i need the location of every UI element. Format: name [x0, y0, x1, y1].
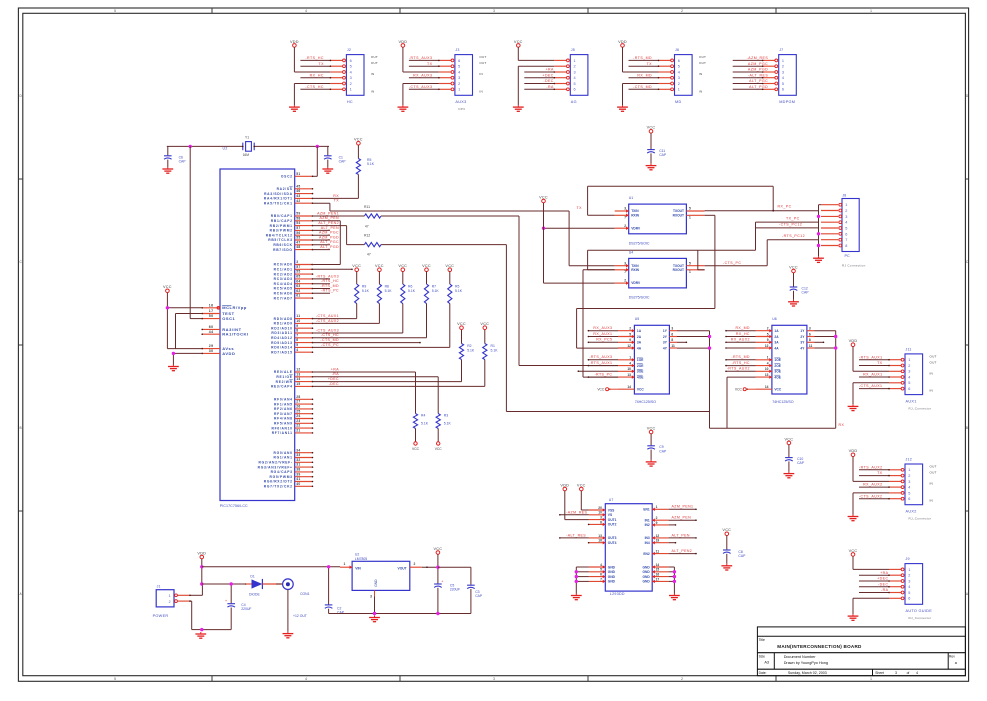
- svg-text:5: 5: [629, 332, 631, 336]
- svg-text:OUT: OUT: [371, 55, 378, 59]
- svg-text:50: 50: [209, 314, 214, 318]
- pin 8 OUT2: [589, 520, 605, 526]
- net label -RTS_PC12: [782, 234, 805, 238]
- svg-text:VCC: VCC: [637, 388, 645, 392]
- svg-text:RXOUT: RXOUT: [673, 213, 684, 217]
- wire -RA: [313, 377, 439, 414]
- svg-text:OUT: OUT: [479, 61, 486, 65]
- crystal Y1: [242, 136, 255, 157]
- ground: [784, 472, 795, 478]
- wire: [313, 318, 333, 320]
- svg-text:RE1/OE: RE1/OE: [276, 375, 292, 379]
- svg-text:RA5/TX1/CK1: RA5/TX1/CK1: [264, 201, 293, 205]
- svg-text:4: 4: [908, 585, 910, 589]
- power symbol VCC: [789, 265, 798, 272]
- svg-text:1: 1: [629, 356, 631, 360]
- svg-text:6: 6: [908, 497, 910, 501]
- pin 63 RC5/AD5: [274, 284, 314, 291]
- pin 10 RD1/AD9: [274, 319, 314, 326]
- svg-text:3OE: 3OE: [774, 370, 781, 374]
- net label +RA: [545, 68, 554, 72]
- pin 30 AVDD: [201, 349, 235, 356]
- wire bottom-left rail: [202, 629, 231, 631]
- svg-text:1: 1: [908, 468, 910, 472]
- wire: [294, 47, 330, 72]
- svg-text:4OE: 4OE: [774, 375, 781, 379]
- svg-text:RJ_Connector: RJ_Connector: [909, 406, 932, 410]
- net label RX_AUX3: [593, 326, 612, 330]
- svg-text:5: 5: [678, 65, 680, 69]
- svg-text:12: 12: [656, 534, 660, 538]
- svg-text:4: 4: [908, 486, 910, 490]
- wire: [403, 84, 439, 106]
- svg-text:MD: MD: [675, 100, 682, 104]
- svg-text:-RTS_MD: -RTS_MD: [321, 284, 340, 288]
- wire: [725, 330, 755, 332]
- pin 6: [889, 387, 904, 390]
- svg-text:2A: 2A: [774, 335, 779, 339]
- svg-text:17: 17: [209, 309, 214, 313]
- net label RX_PC5: [596, 338, 612, 342]
- svg-text:60: 60: [209, 325, 214, 329]
- pin 3: [554, 71, 569, 74]
- pin 1 1OE: [618, 356, 634, 362]
- svg-text:4: 4: [600, 563, 602, 567]
- IC U5 74HC125: [634, 317, 669, 404]
- IC U2 PIC17C756/LCC: [220, 147, 295, 508]
- svg-text:3A: 3A: [774, 341, 779, 345]
- ground: [646, 460, 657, 466]
- svg-text:5.1K: 5.1K: [421, 421, 429, 425]
- svg-text:6: 6: [845, 232, 847, 236]
- pin 5 2A: [618, 332, 634, 338]
- svg-text:4: 4: [767, 361, 769, 365]
- wire: [859, 475, 890, 477]
- svg-text:RX_AUX1: RX_AUX1: [593, 332, 612, 336]
- svg-text:1: 1: [458, 88, 460, 92]
- net label -ALT_RES: [566, 534, 586, 538]
- pin 1: [330, 88, 345, 91]
- pin 4: [889, 486, 904, 489]
- pin 4 2OE: [618, 361, 634, 367]
- node 4Y junction: [708, 346, 711, 349]
- wire: [313, 332, 333, 334]
- svg-text:1: 1: [908, 568, 910, 572]
- svg-text:RA1/TOCKI: RA1/TOCKI: [222, 332, 248, 337]
- node Y1-left junction: [189, 145, 192, 148]
- net label -CTS_AUX1: [859, 384, 883, 388]
- svg-text:IN: IN: [699, 89, 703, 93]
- svg-text:RA3/SDI/SDA: RA3/SDI/SDA: [264, 192, 293, 196]
- ground: [283, 632, 294, 638]
- pin 6 2Y: [669, 332, 677, 336]
- svg-text:56: 56: [296, 231, 300, 235]
- net label -DEC: [878, 582, 888, 586]
- pin bubble MCLR: [217, 307, 220, 310]
- svg-text:6: 6: [600, 573, 602, 577]
- wire U4 RXOUT: [698, 250, 705, 270]
- svg-text:1OE: 1OE: [774, 358, 781, 362]
- pin 14 GND: [652, 563, 668, 569]
- svg-text:RE2/WR: RE2/WR: [276, 380, 293, 384]
- net label TX: [647, 62, 653, 66]
- connector J12 AUX2: [905, 458, 931, 521]
- pin 5 2A: [756, 332, 772, 338]
- wire: [518, 66, 554, 105]
- svg-text:1A: 1A: [774, 329, 779, 333]
- svg-text:TX_PC: TX_PC: [786, 217, 800, 221]
- svg-text:RD5/AD13: RD5/AD13: [271, 341, 293, 345]
- svg-text:-RTS_AUX3: -RTS_AUX3: [409, 56, 433, 60]
- svg-text:RG6/RX2/DT2: RG6/RX2/DT2: [264, 480, 293, 484]
- svg-text:13: 13: [765, 373, 769, 377]
- capacitor C11: [647, 133, 667, 164]
- svg-text:-RTS_PC12: -RTS_PC12: [782, 234, 805, 238]
- svg-text:-RTS_PC: -RTS_PC: [321, 289, 339, 293]
- svg-text:MCLR/Vpp: MCLR/Vpp: [222, 305, 247, 310]
- svg-text:1: 1: [656, 505, 658, 509]
- wire: [409, 77, 440, 79]
- wire: [313, 202, 330, 204]
- svg-text:1: 1: [870, 9, 872, 13]
- pin 12 4A: [618, 344, 634, 350]
- pin 2: [889, 574, 904, 577]
- svg-text:3: 3: [370, 594, 372, 598]
- svg-text:3: 3: [908, 579, 910, 583]
- svg-text:220UF: 220UF: [241, 607, 251, 611]
- svg-text:2: 2: [574, 65, 576, 69]
- svg-text:RXIN: RXIN: [631, 268, 639, 272]
- svg-text:13: 13: [627, 373, 631, 377]
- ground: [195, 632, 206, 638]
- wire: [859, 376, 890, 378]
- capacitor C5: [434, 579, 460, 613]
- resistor R7: [424, 271, 439, 337]
- wire: [313, 215, 331, 217]
- wire RXOUT down: [705, 215, 715, 308]
- pin 1: [175, 594, 190, 597]
- svg-text:RG0/AN0: RG0/AN0: [273, 451, 292, 455]
- svg-text:16: 16: [656, 573, 660, 577]
- svg-text:4A: 4A: [637, 346, 642, 350]
- svg-text:220UF: 220UF: [450, 588, 460, 592]
- net label RX_MD: [637, 73, 652, 77]
- svg-text:IN: IN: [930, 499, 934, 503]
- net label +RA: [331, 367, 339, 371]
- svg-text:CAP: CAP: [339, 160, 347, 164]
- svg-text:CON1: CON1: [300, 592, 310, 596]
- svg-text:5.1K: 5.1K: [444, 421, 452, 425]
- svg-text:7: 7: [845, 238, 847, 242]
- wire: [629, 89, 660, 91]
- pin 5: [554, 82, 569, 85]
- wire: [313, 288, 331, 290]
- wire: [733, 60, 764, 62]
- svg-text:8: 8: [600, 520, 602, 524]
- net label RX_AUX1: [863, 373, 882, 377]
- wire: [559, 514, 589, 516]
- pin 4: [659, 71, 674, 74]
- pin 5 GND: [589, 568, 605, 574]
- svg-text:IN: IN: [930, 482, 934, 486]
- net label -CTS_AUX2: [859, 494, 883, 498]
- wire: [167, 145, 329, 147]
- svg-text:OUT: OUT: [930, 355, 937, 359]
- svg-text:RC4/AD4: RC4/AD4: [274, 282, 293, 286]
- svg-text:-CTS_AUX2: -CTS_AUX2: [859, 494, 883, 498]
- svg-text:RA2/SS: RA2/SS: [277, 187, 293, 191]
- svg-text:RG4/CAP3: RG4/CAP3: [271, 470, 293, 474]
- svg-text:-RTS_AUX3: -RTS_AUX3: [589, 355, 612, 359]
- svg-text:28: 28: [296, 395, 300, 399]
- pin 2 IN1: [652, 516, 668, 522]
- svg-text:TX: TX: [318, 62, 324, 66]
- svg-text:2: 2: [908, 364, 910, 368]
- pin 1: [659, 88, 674, 91]
- IC U3 LM7805: [352, 552, 410, 590]
- capacitor C9: [647, 434, 667, 460]
- svg-text:1: 1: [870, 677, 872, 681]
- wire: [859, 580, 890, 582]
- connector J9 AUTO GUIDE: [905, 557, 932, 620]
- svg-text:51: 51: [296, 172, 300, 176]
- pin 38 RG4/CAP3: [271, 468, 314, 475]
- svg-text:44: 44: [209, 330, 214, 334]
- wire: [403, 47, 439, 72]
- svg-text:5: 5: [689, 261, 691, 265]
- svg-text:2: 2: [624, 224, 626, 228]
- svg-text:3: 3: [895, 671, 897, 675]
- power symbol VCC: [163, 285, 172, 292]
- svg-text:6: 6: [908, 597, 910, 601]
- svg-text:12: 12: [765, 344, 769, 348]
- svg-text:38: 38: [296, 468, 300, 472]
- ground: [848, 404, 859, 410]
- pin 6: [659, 59, 674, 62]
- svg-text:27: 27: [296, 400, 300, 404]
- capacitor C12: [790, 273, 810, 300]
- svg-text:RX_PC: RX_PC: [778, 205, 792, 209]
- pin 5: [439, 65, 454, 68]
- pin 3 GND: [370, 590, 374, 598]
- ground: [322, 167, 333, 173]
- wire: [559, 537, 589, 539]
- svg-text:+RA: +RA: [545, 68, 554, 72]
- resistor R12: [330, 226, 710, 412]
- svg-text:RF3/AN7: RF3/AN7: [274, 412, 293, 416]
- pin 2: [659, 82, 674, 85]
- svg-text:IN3: IN3: [645, 536, 650, 540]
- svg-text:TX: TX: [877, 361, 883, 365]
- pin 14 VCC: [735, 385, 772, 391]
- svg-text:4OE: 4OE: [637, 375, 644, 379]
- wire: [669, 542, 677, 544]
- wire RX_PC: [705, 210, 819, 212]
- svg-text:RG3/AN3/VREF+: RG3/AN3/VREF+: [258, 465, 293, 469]
- resistor R5: [356, 145, 374, 199]
- svg-text:34: 34: [296, 448, 300, 452]
- svg-text:CAP: CAP: [802, 291, 810, 295]
- svg-text:Title: Title: [759, 638, 765, 642]
- capacitor C1: [324, 146, 346, 167]
- net label -CTS_AUX3: [316, 328, 339, 332]
- svg-text:39: 39: [296, 472, 300, 476]
- connector J5 AG: [570, 48, 588, 104]
- pin 6: [554, 88, 569, 91]
- power symbol VCC: [722, 528, 731, 535]
- pin 23 RF5/AN9: [274, 419, 313, 426]
- pin 1: [821, 203, 847, 207]
- svg-text:1: 1: [678, 88, 680, 92]
- power symbol VCC: [647, 126, 656, 133]
- wire: [859, 586, 890, 588]
- node VDRV junction: [542, 227, 545, 230]
- svg-text:2: 2: [908, 574, 910, 578]
- wire J8 ground rail: [819, 205, 822, 257]
- svg-text:ALT_PEN: ALT_PEN: [321, 226, 339, 230]
- power symbol VCC: [352, 264, 361, 271]
- pin 2 VOUT: [410, 562, 422, 567]
- power symbol VCC: [480, 322, 489, 329]
- svg-text:Size: Size: [759, 654, 766, 658]
- wire TX net: [330, 203, 615, 266]
- power symbol VCC: [412, 442, 420, 451]
- ground: [669, 594, 680, 600]
- pin 3 RC0/AD0: [274, 260, 314, 267]
- svg-text:45: 45: [296, 184, 300, 188]
- svg-text:TX: TX: [334, 199, 340, 203]
- pin 33 RG1/AN1: [273, 453, 313, 460]
- pin 5 RD6/AD14: [271, 343, 313, 350]
- svg-text:-CTS_AUX3: -CTS_AUX3: [316, 328, 339, 332]
- pin 43 RA4/RX1/DT1: [264, 194, 313, 201]
- capacitor C10: [785, 445, 805, 472]
- svg-text:CAP: CAP: [797, 461, 805, 465]
- pin 6 2Y: [807, 332, 815, 336]
- power symbol VCC: [375, 264, 384, 271]
- power symbol VDD: [618, 40, 627, 47]
- wire: [588, 542, 590, 544]
- net label TX_PC: [786, 217, 800, 221]
- svg-text:GND: GND: [608, 575, 616, 579]
- node AVDD junction: [172, 352, 175, 355]
- wire +RA: [313, 372, 416, 414]
- node C2 top: [327, 565, 330, 568]
- svg-text:9: 9: [629, 338, 631, 342]
- ground: [513, 105, 524, 111]
- net label -RTS_AUX3: [316, 274, 339, 278]
- net label RX_AUX3: [413, 73, 432, 77]
- pin 5: [889, 492, 904, 495]
- net label +DEC: [542, 73, 553, 77]
- wire: [733, 89, 764, 91]
- net label RX_AUX1: [593, 332, 612, 336]
- svg-text:5.1K: 5.1K: [491, 348, 499, 352]
- svg-text:1: 1: [689, 216, 691, 220]
- svg-text:54: 54: [296, 221, 300, 225]
- net label TX: [334, 199, 340, 203]
- pin 4 2OE: [756, 361, 772, 367]
- svg-text:RX: RX: [333, 194, 339, 198]
- wire: [311, 221, 340, 265]
- svg-text:AUX1: AUX1: [906, 399, 917, 403]
- svg-text:VDRV: VDRV: [631, 226, 641, 230]
- svg-text:ALT_PGD: ALT_PGD: [320, 245, 339, 249]
- pin 15 GND: [652, 568, 668, 574]
- svg-text:65: 65: [296, 275, 300, 279]
- svg-text:4: 4: [305, 677, 307, 681]
- net label -CTS_AUX2: [316, 319, 339, 323]
- wire: [294, 84, 330, 106]
- svg-text:GND: GND: [642, 575, 650, 579]
- svg-text:J1: J1: [157, 585, 161, 589]
- pin 1 RXOUT: [686, 215, 704, 219]
- net label ALT_PEN2: [672, 549, 693, 553]
- svg-text:RC0/AD0: RC0/AD0: [274, 263, 293, 267]
- pin 51 OSC2: [281, 172, 313, 179]
- svg-text:16: 16: [209, 303, 214, 307]
- svg-text:20: 20: [598, 506, 602, 510]
- wire: [725, 365, 755, 367]
- pin 13 RE1/OE: [276, 372, 313, 379]
- pin 6: [821, 232, 847, 236]
- net label ALT_PGD: [320, 245, 339, 249]
- ground: [369, 616, 380, 622]
- wire: [313, 220, 341, 222]
- pin 12 RE0/ALE: [274, 368, 313, 375]
- svg-text:RX_AUX2: RX_AUX2: [731, 338, 750, 342]
- svg-text:3: 3: [671, 327, 673, 331]
- svg-text:3OE: 3OE: [637, 370, 644, 374]
- pin 14 VCC: [597, 385, 634, 391]
- svg-text:4: 4: [296, 348, 298, 352]
- wire: [313, 278, 331, 280]
- wire U7 left GND rail: [576, 567, 589, 594]
- svg-text:RB1/CAP2: RB1/CAP2: [271, 219, 293, 223]
- svg-text:3: 3: [908, 370, 910, 374]
- svg-text:EN1: EN1: [643, 508, 650, 512]
- svg-text:14: 14: [765, 385, 769, 389]
- ground: [617, 105, 628, 111]
- net label -CTS_PC12: [779, 222, 802, 226]
- pin 65 RC3/AD3: [274, 275, 314, 282]
- net label AZM_PGC: [319, 231, 339, 235]
- svg-text:6: 6: [671, 332, 673, 336]
- net label -RTS_AUX3: [409, 56, 433, 60]
- svg-text:A3: A3: [764, 660, 769, 664]
- pin 44 RA1/TOCKI: [201, 330, 248, 337]
- wire -CTS_MD: [332, 342, 421, 344]
- svg-text:IN4: IN4: [645, 541, 650, 545]
- wire: [588, 376, 618, 378]
- svg-text:DIODE: DIODE: [249, 592, 260, 596]
- svg-text:TX: TX: [647, 62, 653, 66]
- svg-text:AUTO GUIDE: AUTO GUIDE: [906, 609, 933, 613]
- wire: [524, 83, 555, 85]
- svg-text:3: 3: [782, 70, 784, 74]
- svg-text:-CTS_AUX1: -CTS_AUX1: [859, 384, 883, 388]
- svg-text:7: 7: [624, 216, 626, 220]
- wire: [588, 336, 618, 338]
- net label -RTS_AUX3: [589, 355, 612, 359]
- svg-text:10: 10: [627, 367, 631, 371]
- net label TX: [877, 471, 883, 475]
- svg-text:RX_AUX3: RX_AUX3: [593, 326, 612, 330]
- svg-text:RG2/AN2/VREF-: RG2/AN2/VREF-: [258, 461, 292, 465]
- pin 7 RD4/AD12: [271, 333, 313, 340]
- svg-text:2: 2: [629, 327, 631, 331]
- svg-text:IN2: IN2: [645, 523, 650, 527]
